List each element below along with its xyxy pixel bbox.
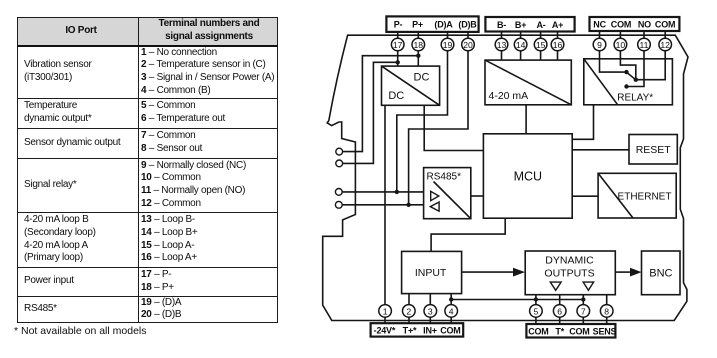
svg-text:RS485*: RS485*	[427, 172, 462, 183]
4-20 mA block	[485, 60, 571, 105]
RS485 transceiver block	[424, 168, 471, 219]
wire terminal 10 to relay common	[620, 31, 635, 80]
terminal strip P- P+ (D)A (D)B	[386, 16, 478, 32]
terminal 9	[593, 38, 606, 51]
svg-text:INPUT: INPUT	[415, 267, 447, 279]
svg-text:BNC: BNC	[649, 267, 672, 279]
terminal 10	[614, 38, 627, 51]
terminal 6	[553, 305, 566, 318]
wire INPUT to terminal 4	[450, 294, 452, 324]
svg-text:-24V*: -24V*	[374, 326, 396, 336]
wire terminal 18 to DC/DC	[417, 32, 419, 67]
svg-text:13: 13	[497, 40, 507, 50]
wire DYNAMIC OUTPUTS to terminal 8	[606, 295, 608, 324]
junction node B (D)B	[406, 203, 410, 207]
wire node P- to sensor connector pin 2	[343, 62, 398, 163]
svg-text:15: 15	[536, 40, 546, 50]
wire common bus terminals 4-5-7	[451, 299, 583, 301]
svg-text:6: 6	[557, 306, 562, 316]
svg-text:19: 19	[443, 40, 453, 50]
svg-text:RESET: RESET	[636, 144, 672, 156]
svg-text:COM: COM	[528, 327, 548, 337]
svg-text:P+: P+	[412, 20, 423, 30]
terminal 16	[551, 38, 564, 51]
wire sensor connector pin 4 to RS485 line B	[342, 204, 423, 206]
wire terminal 12 to relay common	[636, 31, 665, 80]
svg-text:B-: B-	[497, 20, 506, 30]
DYNAMIC OUTPUTS block	[525, 251, 615, 295]
wire relay to MCU	[572, 105, 593, 140]
junction node A (D)A	[395, 190, 399, 194]
svg-text:11: 11	[640, 40, 649, 50]
svg-text:COM: COM	[611, 20, 631, 30]
wire DYNAMIC OUTPUTS to terminal 6	[559, 295, 561, 324]
terminal strip -24V* T+* IN+ COM	[371, 323, 464, 336]
wire terminal 11 to relay NO contact	[627, 31, 645, 87]
ETHERNET block	[598, 173, 676, 218]
svg-text:3: 3	[428, 306, 433, 316]
svg-text:NC: NC	[593, 20, 606, 30]
wire INPUT to terminal 2	[408, 294, 410, 324]
svg-text:ETHERNET: ETHERNET	[618, 192, 672, 203]
BNC block	[642, 251, 681, 295]
svg-text:16: 16	[553, 40, 563, 50]
svg-text:DC: DC	[414, 72, 430, 84]
junction terminal 4 common	[449, 297, 453, 301]
wire terminal 17 to DC/DC	[397, 32, 399, 66]
svg-text:OUTPUTS: OUTPUTS	[544, 268, 594, 280]
terminal 15	[534, 38, 547, 51]
junction node on P+ wire	[416, 54, 420, 58]
wire DC/DC to terminal 1	[384, 105, 386, 323]
terminal 19	[441, 38, 454, 51]
terminal 4	[445, 305, 458, 318]
svg-text:T*: T*	[555, 327, 564, 337]
wire MCU to ETHERNET	[572, 195, 598, 197]
wire MCU to RESET	[572, 149, 629, 151]
relay NO contact	[624, 84, 628, 88]
svg-text:RELAY*: RELAY*	[617, 93, 653, 104]
terminal strip NC COM NO COM	[590, 17, 680, 31]
terminal 17	[391, 38, 404, 51]
svg-text:14: 14	[516, 40, 526, 50]
wire terminal 19 to node A	[397, 32, 448, 192]
enclosure case outline	[323, 35, 688, 320]
RELAY block	[584, 59, 673, 105]
wire MCU to INPUT	[431, 218, 505, 251]
terminal 13	[495, 38, 508, 51]
junction node on P- wire	[396, 60, 400, 64]
relay common contact	[634, 78, 638, 82]
terminal 11	[638, 38, 651, 51]
terminal 12	[659, 38, 672, 51]
svg-text:8: 8	[604, 306, 609, 316]
sensor connector pin 1	[336, 148, 343, 155]
svg-text:NO: NO	[638, 20, 651, 30]
svg-text:10: 10	[616, 40, 626, 50]
terminal strip B- B+ A- A+	[485, 17, 574, 32]
svg-text:2: 2	[406, 306, 411, 316]
svg-text:4-20 mA: 4-20 mA	[489, 90, 529, 102]
svg-text:18: 18	[414, 40, 424, 50]
relay NC contact	[624, 70, 628, 74]
terminal 5	[530, 305, 543, 318]
svg-text:5: 5	[534, 306, 539, 316]
junction terminal 7 common	[581, 297, 585, 301]
INPUT block	[402, 251, 462, 293]
svg-text:A-: A-	[536, 20, 545, 30]
terminal 2	[403, 305, 416, 318]
wire RS485 to MCU	[471, 195, 484, 197]
svg-text:4: 4	[449, 306, 454, 316]
DC/DC converter block	[382, 66, 440, 105]
wire INPUT to terminal 3	[429, 294, 431, 324]
sensor connector pin 2	[336, 160, 343, 167]
svg-text:P-: P-	[394, 20, 403, 30]
sensor connector pin 4	[335, 201, 342, 208]
svg-text:(D)B: (D)B	[458, 20, 477, 30]
svg-text:12: 12	[660, 40, 670, 50]
sensor connector pin 3	[335, 189, 342, 196]
relay armature	[625, 71, 636, 80]
wire DC/DC to MCU supply	[424, 105, 483, 150]
wire node P+ to sensor connector pin 1	[343, 56, 419, 152]
arrow INPUT to DYNAMIC OUTPUTS	[462, 268, 525, 277]
terminal 8	[600, 305, 613, 318]
svg-text:T+*: T+*	[403, 326, 417, 336]
svg-text:A+: A+	[552, 20, 563, 30]
wire DYNAMIC OUTPUTS to terminal 7	[582, 295, 584, 324]
svg-text:1: 1	[383, 306, 388, 316]
terminal 1	[379, 305, 392, 318]
terminal 3	[424, 305, 437, 318]
svg-text:17: 17	[393, 40, 403, 50]
wire terminal 15 to 4-20 mA	[540, 32, 542, 61]
wire sensor connector pin 3 to RS485 line A	[342, 191, 423, 193]
RESET block	[629, 135, 677, 165]
wire terminal 16 to 4-20 mA	[557, 32, 559, 61]
junction terminal 5 common	[534, 297, 538, 301]
wire DYNAMIC OUTPUTS to terminal 5	[535, 295, 537, 324]
terminal 7	[577, 305, 590, 318]
wire terminal 9 to relay NC contact	[600, 31, 627, 72]
terminal strip COM T* COM SENS	[526, 324, 616, 338]
svg-text:COM: COM	[655, 20, 675, 30]
wire terminal 14 to 4-20 mA	[520, 32, 522, 61]
svg-text:(D)A: (D)A	[434, 20, 453, 30]
footnote	[14, 325, 147, 337]
MCU block	[483, 134, 572, 218]
arrow DYNAMIC OUTPUTS to BNC	[615, 268, 641, 277]
svg-text:B+: B+	[515, 20, 526, 30]
terminal 14	[514, 38, 527, 51]
terminal 20	[462, 38, 475, 51]
svg-text:20: 20	[463, 40, 473, 50]
svg-text:DYNAMIC: DYNAMIC	[545, 255, 594, 267]
wire 4-20 mA to MCU	[525, 105, 527, 134]
terminal 18	[412, 38, 425, 51]
svg-text:IN+: IN+	[423, 326, 437, 336]
svg-text:DC: DC	[388, 90, 404, 102]
svg-text:COM: COM	[569, 327, 589, 337]
svg-text:MCU: MCU	[514, 170, 542, 184]
wire terminal 20 to node B	[409, 32, 468, 205]
svg-text:SENS: SENS	[593, 327, 617, 337]
svg-text:COM: COM	[440, 326, 460, 336]
svg-text:7: 7	[581, 306, 586, 316]
IO port table	[17, 17, 278, 323]
svg-text:9: 9	[597, 40, 602, 50]
wire terminal 13 to 4-20 mA	[501, 32, 503, 61]
